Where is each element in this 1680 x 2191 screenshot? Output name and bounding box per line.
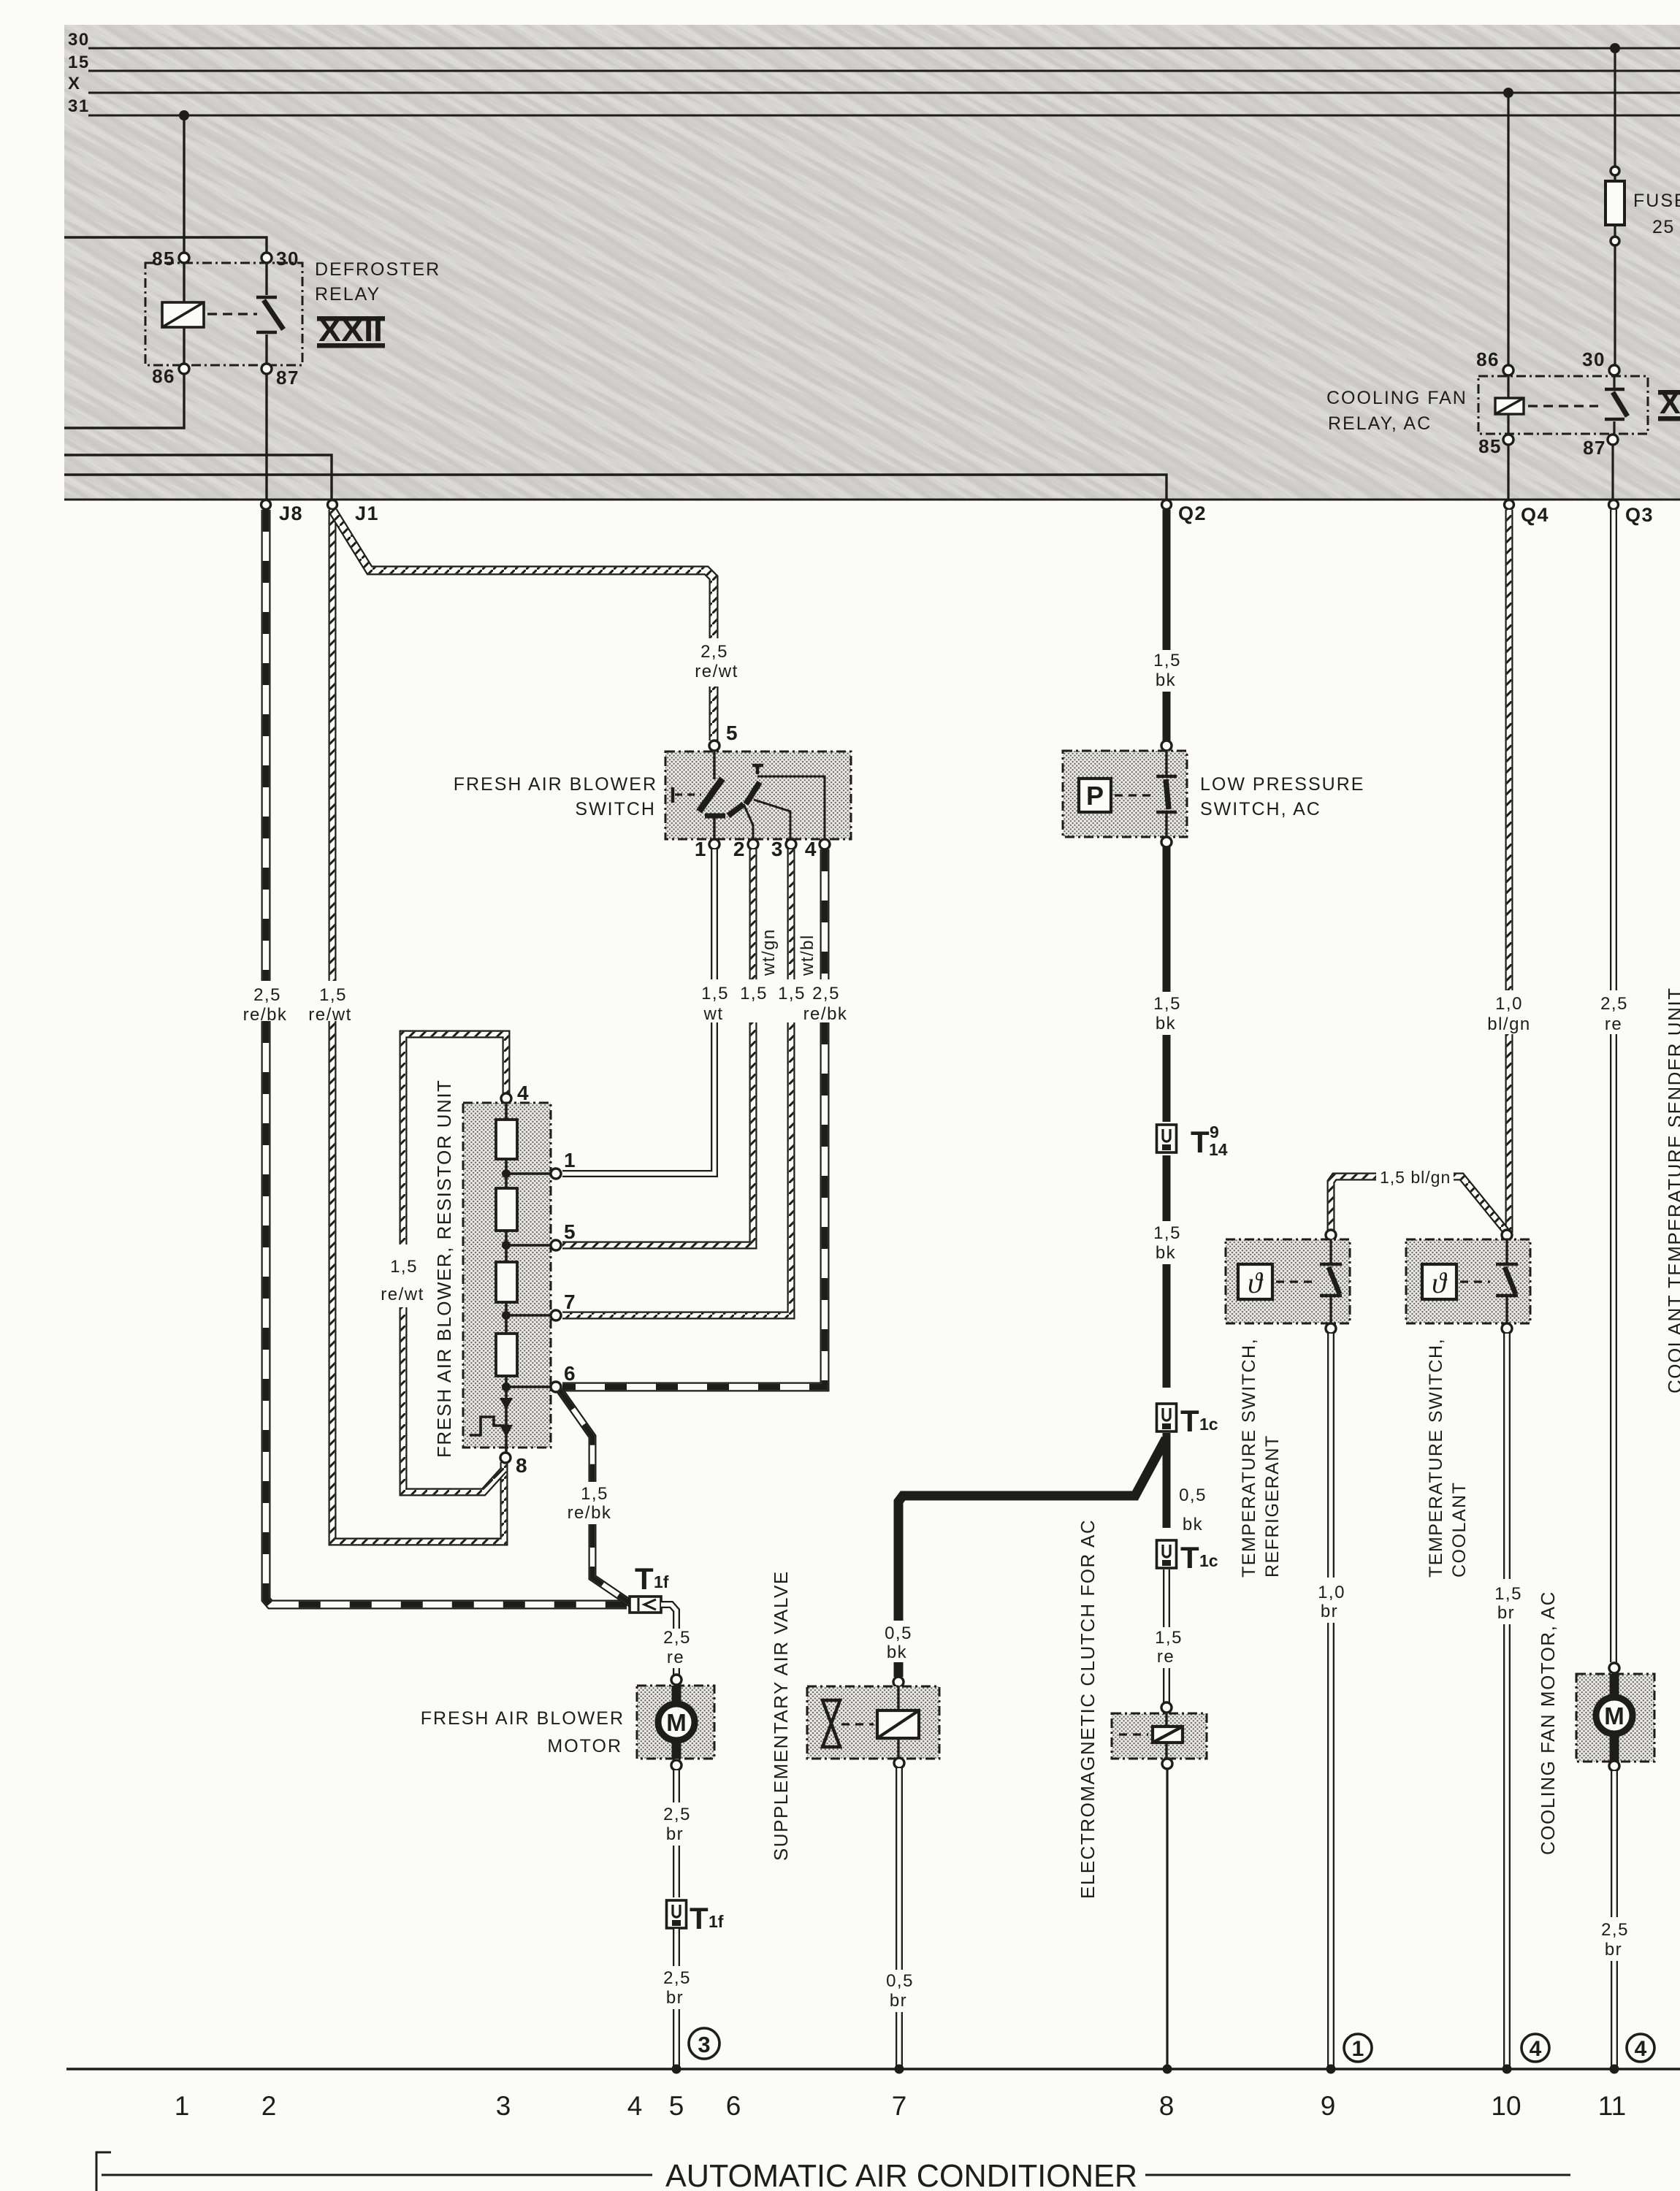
svg-text:2,5: 2,5	[1601, 1920, 1629, 1940]
svg-text:4: 4	[805, 838, 817, 860]
svg-text:30: 30	[1582, 348, 1605, 370]
connector T1f upper	[630, 1597, 661, 1613]
caption line right	[1145, 2174, 1570, 2176]
svg-text:bk: bk	[1156, 670, 1176, 690]
bus line X	[88, 92, 1680, 94]
cooling fan relay pin 30	[1609, 365, 1619, 375]
svg-text:Q3: Q3	[1625, 504, 1654, 526]
svg-text:86: 86	[1476, 348, 1500, 370]
svg-text:4: 4	[1635, 2037, 1647, 2061]
svg-text:1c: 1c	[1199, 1551, 1218, 1570]
node temp refrigerant at rail	[1326, 2065, 1336, 2074]
svg-text:COOLANT TEMPERATURE SENDER UNI: COOLANT TEMPERATURE SENDER UNIT	[1664, 987, 1680, 1393]
svg-text:3: 3	[496, 2091, 511, 2121]
blower motor M symbol	[672, 1686, 681, 1705]
wire branch to supplementary air valve	[898, 1439, 1166, 1621]
svg-text:1: 1	[1352, 2037, 1364, 2061]
resistor unit pin 1	[551, 1169, 561, 1179]
svg-text:Q4: Q4	[1521, 504, 1549, 526]
node on bus 30 feeding fuse	[1610, 43, 1620, 53]
svg-text:4: 4	[627, 2091, 643, 2121]
node clutch at rail	[1163, 2065, 1172, 2074]
svg-text:re/wt: re/wt	[695, 662, 738, 681]
svg-text:1: 1	[695, 838, 707, 860]
wire Q2 re to clutch lower	[1163, 1668, 1170, 1702]
fan motor bottom pin	[1609, 1761, 1619, 1771]
svg-text:87: 87	[1583, 437, 1606, 459]
wire switch pin3 lower to resistor pin 7	[562, 1022, 791, 1315]
temp switch refrigerant bottom pin	[1326, 1323, 1336, 1334]
svg-text:SWITCH, AC: SWITCH, AC	[1200, 799, 1321, 819]
svg-text:6: 6	[564, 1362, 576, 1385]
svg-text:2,5: 2,5	[663, 1628, 691, 1648]
cooling fan relay pin 87	[1608, 435, 1618, 445]
svg-text:T: T	[1180, 1540, 1199, 1575]
svg-text:2: 2	[733, 838, 746, 860]
caption bracket	[96, 2152, 111, 2191]
ground symbol 4a	[1521, 2034, 1549, 2062]
svg-text:14: 14	[1209, 1140, 1228, 1159]
wire J1 re/wt upper	[329, 510, 337, 981]
svg-text:ϑ: ϑ	[1248, 1266, 1264, 1299]
svg-text:SUPPLEMENTARY AIR VALVE: SUPPLEMENTARY AIR VALVE	[770, 1570, 792, 1861]
temp switch refrigerant top pin	[1326, 1230, 1336, 1240]
svg-text:br: br	[890, 1991, 907, 2011]
wire fuse to cooling fan relay pin 30	[1614, 245, 1616, 365]
svg-text:X: X	[68, 74, 81, 93]
wire resistor pin6 re/bk branch upper	[560, 1390, 592, 1482]
defroster relay pin 86	[179, 364, 189, 374]
wire Q3 re lower to fan motor	[1610, 1034, 1617, 1662]
svg-text:TEMPERATURE SWITCH,: TEMPERATURE SWITCH,	[1239, 1338, 1259, 1578]
blower switch pin 2	[748, 839, 758, 849]
svg-text:86: 86	[152, 365, 175, 387]
supplementary air valve box	[807, 1686, 939, 1759]
svg-text:9: 9	[1321, 2091, 1336, 2121]
svg-text:3: 3	[698, 2032, 710, 2057]
svg-text:XXII: XXII	[318, 313, 383, 348]
svg-text:M: M	[666, 1709, 687, 1736]
wire resistor loop lower	[403, 1307, 504, 1492]
svg-text:re: re	[667, 1648, 684, 1667]
resistor unit pin 6	[551, 1382, 561, 1392]
wire switch pin4 re/bk lower to resistor pin 6	[562, 1022, 825, 1387]
wire Q2 bk below switch	[1163, 847, 1171, 992]
svg-text:J1: J1	[355, 502, 379, 524]
wire Q2 bk to low pressure switch	[1163, 692, 1171, 741]
wire into blower motor	[673, 1668, 680, 1675]
svg-text:wt: wt	[703, 1004, 724, 1024]
wire Q2 bk below T1c	[1163, 1433, 1171, 1528]
svg-text:2,5: 2,5	[663, 1805, 691, 1824]
svg-text:re: re	[1157, 1647, 1175, 1667]
wire temp refrigerant to ground rail	[1327, 1623, 1335, 2067]
svg-text:4: 4	[517, 1082, 530, 1104]
clutch coil	[1153, 1727, 1183, 1743]
node blower motor at rail	[672, 2065, 681, 2074]
svg-text:RELAY: RELAY	[315, 284, 381, 305]
svg-text:DEFROSTER: DEFROSTER	[315, 259, 440, 280]
thermal symbol box (coolant)	[1422, 1264, 1456, 1299]
svg-text:0,5: 0,5	[1179, 1485, 1207, 1505]
svg-text:1: 1	[175, 2091, 190, 2121]
svg-text:5: 5	[726, 722, 738, 744]
svg-text:ELECTROMAGNETIC CLUTCH FOR AC: ELECTROMAGNETIC CLUTCH FOR AC	[1077, 1519, 1099, 1899]
resistor R2	[496, 1188, 517, 1231]
svg-text:ϑ: ϑ	[1432, 1266, 1448, 1299]
svg-text:AUTOMATIC AIR CONDITIONER: AUTOMATIC AIR CONDITIONER	[665, 2158, 1137, 2191]
wire bl/gn branch right	[1454, 1177, 1506, 1231]
svg-text:LOW PRESSURE: LOW PRESSURE	[1200, 774, 1364, 795]
svg-text:COOLING FAN: COOLING FAN	[1326, 388, 1467, 408]
wire bus 30 to fuse	[1614, 48, 1616, 167]
fresh air blower switch box	[665, 752, 851, 839]
wire Q2 re to clutch upper	[1163, 1569, 1170, 1627]
svg-text:1,5: 1,5	[1155, 1628, 1183, 1648]
fresh air blower resistor unit box	[463, 1103, 551, 1448]
temp switch coolant dashed link	[1460, 1280, 1490, 1282]
blower motor top pin	[671, 1675, 681, 1685]
svg-text:10: 10	[1491, 2091, 1521, 2121]
svg-text:0,5: 0,5	[886, 1971, 914, 1991]
terminal Q4	[1505, 500, 1514, 510]
clutch top pin	[1161, 1702, 1172, 1713]
svg-text:FUSE: FUSE	[1633, 191, 1680, 211]
fan motor M symbol	[1610, 1674, 1619, 1697]
fan motor top pin	[1609, 1663, 1619, 1673]
svg-text:2,5: 2,5	[812, 984, 840, 1003]
overheat arrows	[500, 1398, 513, 1410]
tap wires to pins	[506, 1174, 551, 1387]
defroster relay pin 30	[261, 253, 272, 263]
cooling fan relay contact	[1613, 375, 1615, 388]
svg-text:11: 11	[1598, 2091, 1626, 2121]
temp switch coolant bottom pin	[1502, 1323, 1512, 1334]
svg-text:re/wt: re/wt	[381, 1285, 424, 1304]
svg-text:SWITCH: SWITCH	[575, 799, 656, 819]
svg-text:wt/bl: wt/bl	[798, 934, 817, 976]
svg-text:REFRIGERANT: REFRIGERANT	[1262, 1434, 1283, 1578]
fuse 25A	[1614, 175, 1616, 237]
svg-text:RELAY, AC: RELAY, AC	[1328, 413, 1432, 434]
wire Q2 bk to T9/14	[1163, 1035, 1171, 1122]
svg-text:1,5 bl/gn: 1,5 bl/gn	[1380, 1168, 1451, 1187]
band bottom border	[64, 499, 1680, 501]
svg-text:br: br	[1497, 1603, 1515, 1623]
svg-text:1,5: 1,5	[1153, 994, 1181, 1014]
temperature switch coolant box	[1406, 1239, 1530, 1323]
svg-text:COOLANT: COOLANT	[1449, 1482, 1470, 1578]
svg-text:1,0: 1,0	[1318, 1583, 1345, 1602]
svg-text:FRESH AIR BLOWER: FRESH AIR BLOWER	[421, 1708, 625, 1729]
defroster relay coil	[162, 302, 204, 327]
temperature switch refrigerant box	[1226, 1239, 1350, 1323]
connector T1c lower	[1157, 1540, 1177, 1568]
svg-text:2,5: 2,5	[663, 1968, 691, 1988]
fuse bottom terminal	[1611, 237, 1619, 245]
pressure symbol P box	[1079, 779, 1111, 812]
svg-text:0,5: 0,5	[885, 1624, 912, 1643]
node on bus X feeding cooling fan relay	[1503, 88, 1513, 98]
defroster relay pin 87	[261, 364, 272, 374]
node on bus 31 feeding defroster relay	[179, 110, 189, 121]
wire switch pin2 lower to resistor pin 5	[562, 1022, 753, 1245]
wire T1f lower down upper	[673, 1929, 680, 1966]
wire blower motor down to T1f lower	[673, 1846, 680, 1897]
svg-text:1f: 1f	[709, 1912, 724, 1931]
blower switch pin 4	[820, 839, 830, 849]
svg-text:85: 85	[1478, 435, 1502, 457]
terminal J1	[328, 500, 337, 510]
svg-text:bk: bk	[1156, 1243, 1176, 1263]
thermal fuse symbol	[470, 1417, 504, 1435]
terminal Q3	[1609, 500, 1619, 510]
svg-text:bk: bk	[1183, 1515, 1203, 1534]
blower switch pin 5	[709, 741, 719, 751]
svg-text:br: br	[666, 1824, 684, 1844]
wire J8 re/bk upper	[261, 510, 271, 981]
svg-text:J8: J8	[279, 502, 303, 524]
valve coil	[877, 1710, 919, 1738]
svg-text:bl/gn: bl/gn	[1487, 1014, 1531, 1034]
svg-text:8: 8	[1159, 2091, 1175, 2121]
wire switch pin1 wt lower to resistor pin 1	[562, 1022, 714, 1174]
wire band edge to Q2 drop	[64, 475, 1167, 500]
ground symbol 1	[1344, 2034, 1372, 2062]
wire Q2 bk to T1c upper	[1163, 1264, 1171, 1388]
blower motor bottom pin	[671, 1760, 681, 1770]
wire Q4 bl/gn upper	[1505, 510, 1513, 990]
wire cooling fan relay pin 85 to Q4	[1507, 445, 1509, 500]
wire Q2 bk below T9/14	[1163, 1155, 1171, 1221]
node resistor tap 5	[502, 1241, 511, 1250]
resistor unit pin 5	[551, 1240, 561, 1250]
resistor R4	[496, 1334, 517, 1376]
blower switch internal contacts	[713, 751, 715, 779]
wire bus X to cooling fan relay pin 86	[1507, 93, 1509, 365]
wire fan motor to ground rail	[1611, 1961, 1618, 2067]
low pressure switch bottom pin	[1161, 837, 1172, 847]
svg-text:5: 5	[564, 1220, 576, 1243]
terminal J8	[261, 500, 271, 510]
node temp coolant at rail	[1503, 2065, 1512, 2074]
svg-text:re/bk: re/bk	[803, 1004, 848, 1024]
cooling fan relay coil	[1495, 398, 1524, 414]
cooling fan relay K box	[1478, 376, 1648, 434]
svg-text:bk: bk	[887, 1643, 907, 1662]
svg-text:1,5: 1,5	[1494, 1584, 1522, 1604]
wire defroster pin 86 to band edge	[64, 374, 184, 428]
supplementary air valve top pin	[893, 1677, 904, 1687]
svg-text:1,5: 1,5	[390, 1257, 418, 1277]
cooling fan relay pin 86	[1503, 365, 1513, 375]
svg-text:T: T	[1180, 1404, 1199, 1438]
wire J1 branch to blower switch pin 5	[333, 511, 714, 638]
supplementary air valve bottom pin	[894, 1758, 904, 1768]
resistor R3	[496, 1262, 517, 1302]
valve dashed link	[841, 1723, 874, 1725]
cooling fan motor box	[1576, 1674, 1654, 1762]
caption line left	[102, 2174, 652, 2176]
wire band edge to defroster pin 30	[64, 237, 267, 253]
fresh air blower motor box	[637, 1686, 714, 1759]
wire temp coolant down upper	[1503, 1334, 1511, 1579]
resistor unit pin 8	[500, 1453, 511, 1463]
wire Q2 bk upper	[1163, 510, 1171, 650]
svg-text:9: 9	[1210, 1123, 1219, 1142]
clutch dashed link	[1119, 1733, 1148, 1735]
cooling fan relay dashed link	[1528, 405, 1598, 407]
ground symbol 4b	[1627, 2034, 1654, 2062]
wire J1 branch lower part	[709, 687, 719, 741]
wire switch pin1 wt upper	[711, 849, 718, 979]
svg-text:1: 1	[564, 1149, 576, 1171]
defroster relay K box	[145, 263, 302, 365]
wire Q3 re upper	[1610, 510, 1617, 990]
svg-text:15: 15	[68, 53, 90, 72]
svg-text:3: 3	[771, 838, 784, 860]
svg-text:2: 2	[261, 2091, 277, 2121]
connector T9/14	[1157, 1125, 1177, 1152]
relay position symbol XXII	[317, 316, 385, 321]
svg-text:FRESH AIR BLOWER, RESISTOR UNI: FRESH AIR BLOWER, RESISTOR UNIT	[433, 1079, 455, 1458]
svg-text:1,5: 1,5	[319, 985, 347, 1005]
svg-text:87: 87	[276, 367, 299, 389]
svg-text:8: 8	[516, 1454, 528, 1477]
power bus band background	[64, 25, 1680, 500]
thermal symbol box (refrigerant)	[1238, 1264, 1272, 1299]
svg-text:P: P	[1086, 781, 1104, 811]
wire defroster pin 87 down to J8	[265, 374, 267, 500]
svg-text:FRESH AIR BLOWER: FRESH AIR BLOWER	[454, 774, 657, 795]
temp switch refrigerant contact	[1329, 1239, 1332, 1263]
svg-text:Q2: Q2	[1178, 502, 1207, 524]
low pressure switch dashed link	[1115, 794, 1156, 796]
svg-text:1,5: 1,5	[740, 984, 768, 1003]
svg-text:1,5: 1,5	[778, 984, 806, 1003]
wire temp refrigerant down upper	[1327, 1334, 1335, 1578]
resistor R1	[496, 1120, 517, 1159]
defroster relay pin 85	[179, 253, 189, 263]
wire valve feed lower	[894, 1662, 904, 1677]
fuse top terminal	[1611, 167, 1619, 175]
wire cooling fan relay pin 87 to Q3	[1611, 445, 1614, 500]
svg-text:T: T	[1191, 1125, 1210, 1159]
cooling fan relay pin 85	[1503, 435, 1513, 445]
svg-text:T: T	[690, 1901, 709, 1935]
svg-text:wt/gn: wt/gn	[759, 928, 779, 976]
resistor unit pin 4	[501, 1093, 511, 1104]
low pressure switch box	[1063, 751, 1187, 837]
wire valve down upper	[896, 1768, 903, 1970]
svg-text:M: M	[1604, 1702, 1624, 1729]
resistor unit pin 7	[551, 1310, 561, 1320]
temp switch refrigerant dashed link	[1276, 1280, 1313, 1282]
temp switch coolant top pin	[1502, 1230, 1512, 1240]
svg-text:4: 4	[1530, 2037, 1542, 2061]
connector T1f lower	[667, 1900, 687, 1928]
blower switch pin 1	[709, 839, 719, 849]
svg-text:re: re	[1605, 1014, 1622, 1034]
svg-text:br: br	[666, 1988, 684, 2008]
clutch bottom pin	[1162, 1759, 1172, 1769]
bus line 31	[88, 115, 1680, 117]
wire J8 re/bk lower to connector T1f	[266, 1021, 627, 1605]
wire resistor loop pin4 feed upper	[403, 1034, 506, 1244]
wire switch pin4 re/bk upper	[820, 849, 830, 979]
svg-text:1,0: 1,0	[1495, 994, 1523, 1014]
svg-text:1,5: 1,5	[581, 1484, 608, 1504]
wire clutch to ground rail	[1166, 1769, 1168, 2067]
wire switch pin3 upper	[787, 849, 795, 979]
electromagnetic clutch box	[1112, 1713, 1207, 1759]
wire switch pin2 upper	[749, 849, 757, 979]
wire bl/gn branch left	[1331, 1177, 1376, 1233]
connector T1c upper	[1157, 1404, 1177, 1431]
low pressure switch contact	[1165, 751, 1167, 775]
bus line 15	[88, 70, 1680, 72]
valve bowtie symbol	[822, 1700, 840, 1747]
svg-text:1f: 1f	[654, 1572, 669, 1591]
svg-text:30: 30	[276, 248, 299, 269]
node resistor tap 1	[502, 1169, 511, 1178]
ground symbol 3	[689, 2028, 719, 2059]
relay position symbol XV (clipped)	[1658, 390, 1680, 395]
svg-text:1,5: 1,5	[1153, 1223, 1181, 1243]
wire T1f to blower motor	[661, 1605, 676, 1629]
ground rail	[66, 2068, 1680, 2070]
wire J1 re/wt lower to resistor pin 8	[332, 1021, 504, 1542]
svg-text:1,5: 1,5	[1153, 651, 1181, 670]
resistor chain wire	[505, 1103, 508, 1453]
svg-text:1c: 1c	[1199, 1415, 1218, 1434]
svg-text:bk: bk	[1156, 1014, 1176, 1033]
wire Q4 bl/gn lower	[1505, 1034, 1513, 1233]
temp switch coolant contact	[1505, 1239, 1508, 1263]
wire blower motor down upper	[673, 1770, 680, 1802]
svg-text:31: 31	[68, 96, 90, 116]
svg-text:6: 6	[726, 2091, 741, 2121]
svg-text:7: 7	[564, 1290, 576, 1313]
svg-text:1,5: 1,5	[701, 984, 729, 1003]
svg-text:br: br	[1321, 1602, 1338, 1621]
svg-text:25: 25	[1652, 217, 1675, 237]
wire resistor pin6 re/bk branch lower	[592, 1524, 631, 1604]
wire band edge to J1 drop	[64, 455, 332, 500]
node fan motor at rail	[1610, 2065, 1619, 2074]
svg-text:TEMPERATURE SWITCH,: TEMPERATURE SWITCH,	[1426, 1338, 1446, 1578]
svg-text:85: 85	[152, 248, 175, 269]
wire fan motor down upper	[1611, 1771, 1618, 1917]
svg-text:2,5: 2,5	[700, 642, 728, 662]
defroster relay coil-contact dashed link	[207, 313, 257, 315]
svg-text:XV: XV	[1660, 386, 1680, 421]
low pressure switch top pin	[1161, 741, 1172, 751]
wire valve to ground rail	[896, 2012, 903, 2067]
svg-text:2,5: 2,5	[1600, 994, 1628, 1014]
svg-text:COOLING FAN MOTOR, AC: COOLING FAN MOTOR, AC	[1537, 1591, 1559, 1855]
wire T1f lower to ground rail	[673, 2009, 680, 2067]
svg-text:MOTOR: MOTOR	[547, 1736, 622, 1756]
terminal Q2	[1162, 500, 1172, 510]
svg-text:2,5: 2,5	[253, 985, 281, 1005]
node valve at rail	[895, 2065, 904, 2074]
svg-text:5: 5	[669, 2091, 684, 2121]
blower switch pin 3	[786, 839, 796, 849]
wire bus31 to defroster pin 85	[183, 115, 185, 253]
node resistor tap 6	[502, 1383, 511, 1391]
node resistor tap 7	[502, 1311, 511, 1320]
